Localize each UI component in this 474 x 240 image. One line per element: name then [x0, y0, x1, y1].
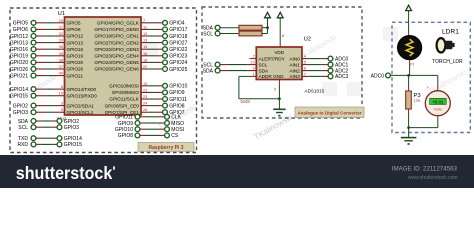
svg-text:32: 32	[59, 31, 63, 36]
svg-text:GPIO11/SCLK: GPIO11/SCLK	[109, 97, 139, 102]
junction ground node	[407, 126, 410, 129]
annotation: Analogue to Digital Converter	[295, 107, 364, 118]
svg-text:GPIO15: GPIO15	[64, 142, 82, 148]
svg-text:GPIO24/GPIO_GEN5: GPIO24/GPIO_GEN5	[94, 60, 139, 65]
svg-text:19: 19	[143, 81, 147, 86]
svg-text:P1: P1	[410, 63, 414, 67]
svg-text:ADS1015: ADS1015	[305, 88, 325, 93]
svg-text:15: 15	[143, 44, 147, 49]
svg-text:+: +	[427, 85, 430, 90]
svg-text:GPIO2/SDA1: GPIO2/SDA1	[67, 103, 95, 108]
wire SCL to R2	[220, 33, 239, 35]
svg-text:37: 37	[59, 64, 63, 69]
power VDD arrow (pull-ups)	[265, 12, 271, 17]
svg-text:GPIO20: GPIO20	[67, 60, 84, 65]
svg-text:GPIO8/SPI_CE0: GPIO8/SPI_CE0	[105, 103, 140, 108]
svg-text:SDA: SDA	[259, 68, 270, 73]
svg-text:GPIO13: GPIO13	[67, 40, 84, 45]
svg-text:5: 5	[61, 107, 63, 112]
svg-text:10k: 10k	[414, 98, 422, 103]
IC U1 RPI3 (Raspberry Pi 3 GPIO header)	[65, 17, 142, 115]
svg-text:GPIO13: GPIO13	[10, 40, 28, 46]
svg-text:SCL: SCL	[203, 31, 213, 37]
svg-text:GPIO10/MOSI: GPIO10/MOSI	[109, 84, 139, 89]
svg-text:GPIO2: GPIO2	[64, 119, 80, 125]
svg-text:GPIO16: GPIO16	[10, 47, 28, 53]
section box: Raspberry Pi 3	[10, 8, 197, 153]
svg-text:GPIO23/GPIO_GEN4: GPIO23/GPIO_GEN4	[94, 54, 139, 59]
terminal ADC1 (U2 output)	[302, 64, 309, 66]
svg-text:22: 22	[143, 64, 147, 69]
svg-text:GPIO27/GPIO_GEN2: GPIO27/GPIO_GEN2	[94, 40, 139, 45]
svg-text:ADC3: ADC3	[335, 74, 349, 80]
wire VDD to LDR1	[408, 11, 410, 31]
ground (sensor)	[401, 137, 417, 139]
svg-text:GPIO10: GPIO10	[115, 127, 133, 133]
svg-text:AIN3: AIN3	[289, 74, 300, 79]
terminal ADC2 (U2 output)	[302, 70, 309, 72]
power VDD arrow (U2)	[277, 12, 283, 17]
wire SDA to R1	[220, 27, 239, 29]
svg-text:11: 11	[143, 24, 147, 29]
svg-text:SCL: SCL	[18, 125, 28, 131]
svg-text:GPIO2: GPIO2	[13, 103, 29, 109]
svg-text:Volts: Volts	[434, 107, 442, 112]
wire voltmeter to ground node	[437, 116, 439, 121]
IC U2 ADS1015	[256, 47, 302, 80]
svg-text:18: 18	[143, 57, 147, 62]
svg-text:23: 23	[143, 94, 147, 99]
svg-text:shutterstock: shutterstock	[16, 163, 113, 183]
svg-text:0x48: 0x48	[241, 99, 251, 104]
wire SCL to U2 pin 10	[220, 64, 229, 66]
svg-text:GPIO15: GPIO15	[10, 94, 28, 100]
svg-text:GPIO3/SCL1: GPIO3/SCL1	[67, 110, 94, 115]
svg-text:GPIO8: GPIO8	[118, 133, 134, 139]
ground (U2)	[273, 108, 285, 110]
svg-text:GPIO18/GPIO_GEN1: GPIO18/GPIO_GEN1	[94, 34, 139, 39]
svg-text:AIN0: AIN0	[289, 56, 300, 61]
svg-text:ALERT/RDY: ALERT/RDY	[259, 56, 286, 61]
svg-text:16: 16	[143, 51, 147, 56]
wire U2 pin 1 ADDR to GND	[251, 75, 256, 77]
wire LDR1 to node	[409, 60, 411, 65]
wire P3 to ground node	[408, 109, 410, 114]
svg-text:SCL: SCL	[259, 62, 269, 67]
svg-text:IMAGE ID: 2211274563: IMAGE ID: 2211274563	[392, 166, 458, 173]
svg-text:GPIO9/MISO: GPIO9/MISO	[112, 90, 139, 95]
svg-text:GPIO17/GPIO_GEN0: GPIO17/GPIO_GEN0	[94, 27, 139, 32]
svg-text:GPIO26: GPIO26	[10, 67, 28, 73]
svg-text:GPIO16: GPIO16	[67, 47, 84, 52]
svg-text:GPIO23: GPIO23	[169, 54, 187, 60]
svg-text:8: 8	[61, 84, 63, 89]
svg-text:GPIO15/RXD0: GPIO15/RXD0	[67, 93, 98, 98]
svg-text:31: 31	[59, 24, 63, 29]
svg-text:GPIO19: GPIO19	[67, 54, 84, 59]
svg-text:LDR1: LDR1	[442, 29, 459, 36]
section box: ADC	[202, 7, 362, 118]
svg-text:7: 7	[143, 18, 145, 23]
svg-text:GPIO18: GPIO18	[169, 34, 187, 40]
svg-text:ADC0: ADC0	[371, 73, 385, 79]
svg-text:38: 38	[59, 57, 63, 62]
svg-text:RXD: RXD	[17, 142, 28, 148]
svg-text:CS: CS	[171, 133, 179, 139]
svg-text:GPIO14/TXD0: GPIO14/TXD0	[67, 87, 97, 92]
svg-text:TORCH_LDR: TORCH_LDR	[432, 59, 463, 65]
svg-text:SDA: SDA	[203, 69, 214, 75]
svg-text:GPIO4: GPIO4	[169, 21, 185, 27]
svg-text:GPIO22/GPIO_GEN3: GPIO22/GPIO_GEN3	[94, 47, 139, 52]
svg-text:GPIO27: GPIO27	[169, 40, 187, 46]
svg-text:GPIO4/GPIO_GCLK: GPIO4/GPIO_GCLK	[97, 21, 140, 26]
terminal ADC3 (U2 output)	[302, 75, 309, 77]
svg-text:GPIO9: GPIO9	[118, 121, 134, 127]
svg-text:GPIO10: GPIO10	[169, 84, 187, 90]
svg-text:GPIO24: GPIO24	[169, 60, 187, 66]
svg-text:U1: U1	[58, 11, 65, 17]
svg-text:GPIO12: GPIO12	[67, 34, 84, 39]
svg-text:GPIO25/GPIO_GEN6: GPIO25/GPIO_GEN6	[94, 67, 139, 72]
svg-text:+0.31: +0.31	[432, 99, 444, 104]
voltmeter instrument	[425, 91, 450, 116]
svg-text:33: 33	[59, 38, 63, 43]
svg-text:GPIO3: GPIO3	[64, 125, 80, 131]
svg-text:29: 29	[59, 18, 63, 23]
section box: LDR sensor	[392, 22, 470, 132]
svg-text:AIN1: AIN1	[289, 62, 300, 67]
svg-text:GPIO6: GPIO6	[67, 27, 81, 32]
svg-text:VDD: VDD	[274, 50, 284, 55]
wire to ground	[408, 128, 410, 138]
svg-text:13: 13	[143, 38, 147, 43]
annotation: Raspberry Pi 3	[138, 143, 194, 152]
svg-text:MISO: MISO	[171, 121, 184, 127]
svg-text:3: 3	[61, 101, 63, 106]
svg-text:CLK: CLK	[171, 115, 181, 121]
svg-text:GPIO12: GPIO12	[10, 34, 28, 40]
svg-text:GPIO21: GPIO21	[10, 73, 28, 79]
photoresistor LDR1	[398, 36, 422, 60]
svg-text:GPIO25: GPIO25	[169, 67, 187, 73]
svg-text:GPIO9: GPIO9	[169, 90, 185, 96]
wire node to voltmeter	[409, 74, 438, 76]
svg-text:GPIO22: GPIO22	[169, 47, 187, 53]
svg-text:GPIO19: GPIO19	[10, 54, 28, 60]
svg-text:10: 10	[250, 60, 255, 65]
wire VDD to U2 pin 8	[279, 18, 281, 42]
svg-text:35: 35	[59, 51, 63, 56]
wire U2 pin 3 GND down	[278, 80, 280, 86]
svg-text:26: 26	[143, 107, 147, 112]
resistor R2 (SCL pull-up)	[239, 31, 262, 36]
svg-text:ADDR GND: ADDR GND	[259, 74, 285, 79]
U2 pin 2 ALERT/RDY stub	[250, 58, 257, 60]
svg-text:MOSI: MOSI	[171, 127, 184, 133]
torch icon	[437, 38, 455, 52]
shutterstock footer bar	[0, 155, 474, 188]
svg-text:GPIO6: GPIO6	[13, 27, 29, 33]
junction ADDR/GND	[278, 97, 281, 100]
junction node ADC0	[407, 74, 410, 77]
power VDD arrow (sensor)	[406, 5, 412, 10]
svg-text:Raspberry Pi 3: Raspberry Pi 3	[148, 145, 183, 151]
resistor R1 (SDA pull-up)	[239, 25, 262, 30]
wire node to P3	[408, 75, 410, 86]
svg-text:U2: U2	[304, 37, 311, 43]
svg-text:12: 12	[143, 31, 147, 36]
svg-text:GPIO26: GPIO26	[67, 67, 84, 72]
terminal ADC0 (U2 output)	[302, 58, 309, 60]
svg-text:GPIO14: GPIO14	[10, 87, 28, 93]
svg-text:21: 21	[143, 87, 147, 92]
svg-text:GPIO3: GPIO3	[13, 110, 29, 116]
svg-text:36: 36	[59, 44, 63, 49]
svg-text:GPIO5: GPIO5	[13, 21, 29, 27]
svg-text:GPIO20: GPIO20	[10, 60, 28, 66]
wire R1/R2 to VDD rail	[262, 27, 268, 29]
svg-text:AIN2: AIN2	[289, 68, 300, 73]
wire SDA to U2 pin 9	[220, 70, 229, 72]
svg-text:GPIO8: GPIO8	[169, 103, 185, 109]
wire ADC0 to LDR node	[390, 74, 408, 76]
decorative	[143, 42, 158, 56]
resistor P3	[406, 91, 412, 109]
svg-text:GPIO11: GPIO11	[115, 115, 133, 121]
svg-text:GPIO17: GPIO17	[169, 27, 187, 33]
svg-text:Analogue to Digital Converter: Analogue to Digital Converter	[298, 111, 362, 116]
svg-text:GPIO21: GPIO21	[67, 73, 84, 78]
svg-text:TXD: TXD	[18, 136, 28, 142]
svg-text:www.shutterstock.com: www.shutterstock.com	[408, 175, 458, 181]
svg-text:GPIO11: GPIO11	[169, 97, 187, 103]
svg-text:SDA: SDA	[18, 119, 29, 125]
svg-text:GPIO14: GPIO14	[64, 136, 82, 142]
svg-text:GPIO5: GPIO5	[67, 21, 81, 26]
